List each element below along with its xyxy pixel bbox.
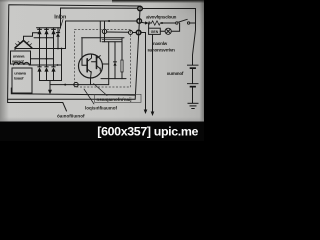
svg-text:ııumınof: ııumınof: [167, 71, 184, 76]
svg-text:aivnvfqnscloun: aivnvfqnscloun: [146, 15, 177, 20]
svg-text:[600x357] upic.me: [600x357] upic.me: [97, 124, 198, 138]
svg-text:ııanonrsvrrívn: ııanonrsvrrívn: [148, 48, 176, 53]
svg-text:óaınofíiuınof: óaınofíiuınof: [57, 114, 85, 119]
svg-text:GEN: GEN: [151, 30, 159, 34]
svg-text:nsıuqaınofnŕnaij: nsıuqaınofnŕnaij: [97, 97, 132, 102]
svg-text:lsıaof: lsıaof: [14, 76, 24, 81]
svg-text:ıamaof: ıamaof: [12, 59, 25, 64]
svg-text:lnlon: lnlon: [54, 14, 66, 20]
svg-text:naonlw: naonlw: [153, 41, 168, 46]
svg-text:loqisıńfiıauınof: loqisıńfiıauınof: [85, 106, 117, 111]
